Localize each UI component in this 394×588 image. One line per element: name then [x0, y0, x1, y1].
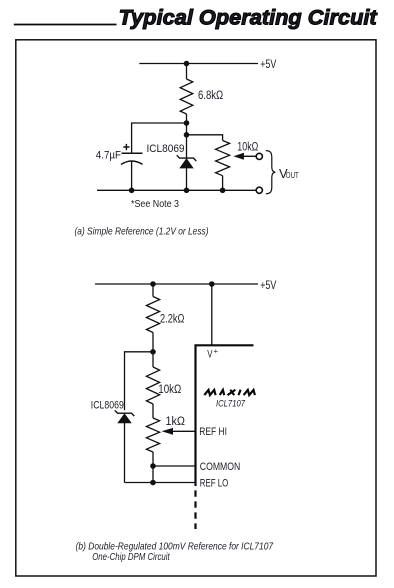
capacitor C1 plus sign	[123, 144, 129, 150]
svg-text:+5V: +5V	[260, 278, 276, 292]
node junction REF LO	[150, 480, 156, 486]
node on rail at V+ branch	[209, 281, 215, 287]
wire zener to REF LO rail	[124, 423, 126, 483]
svg-text:10kΩ: 10kΩ	[158, 384, 181, 396]
svg-text:10kΩ: 10kΩ	[237, 142, 258, 154]
node capacitor/bottom rail	[129, 188, 135, 194]
node pot/bottom rail	[220, 188, 226, 194]
svg-text:REF HI: REF HI	[199, 426, 227, 438]
node junction on +5V rail (a)	[184, 61, 190, 67]
svg-text:V: V	[207, 349, 212, 361]
VOUT terminal bottom	[256, 187, 262, 193]
svg-text:Typical Operating Circuit: Typical Operating Circuit	[119, 6, 378, 30]
node on rail at 2.2k	[150, 281, 156, 287]
node junction to pot branch	[184, 132, 190, 138]
wire to zener (b)	[125, 352, 154, 411]
resistor 10kΩ (b) zigzag	[146, 367, 159, 404]
wire pot to COMMON/REF LO	[152, 452, 154, 483]
wire +5V rail (a)	[139, 63, 258, 65]
svg-text:ICL7107: ICL7107	[216, 399, 246, 410]
node junction to capacitor branch	[184, 120, 190, 126]
VOUT label	[279, 166, 299, 181]
potentiometer 1kΩ zigzag	[146, 418, 159, 452]
potentiometer 10kΩ zigzag	[216, 141, 230, 191]
svg-text:One-Chip DPM Circuit: One-Chip DPM Circuit	[92, 552, 170, 563]
svg-text:6.8kΩ: 6.8kΩ	[198, 90, 224, 102]
wire to capacitor	[132, 123, 187, 153]
MAXIM logo	[204, 390, 255, 395]
wire COMMON	[153, 465, 195, 467]
svg-text:ICL8069: ICL8069	[91, 399, 124, 411]
node junction COMMON	[150, 463, 156, 469]
svg-text:4.7µF: 4.7µF	[96, 150, 121, 162]
zener diode ICL8069 (b)	[115, 410, 135, 423]
output brace	[266, 151, 276, 194]
potentiometer wiper arrow	[233, 153, 256, 160]
svg-text:(a) Simple Reference (1.2V or: (a) Simple Reference (1.2V or Less)	[75, 227, 209, 238]
wire V+ supply	[211, 284, 213, 345]
node junction to ICL8069 branch	[150, 349, 156, 355]
node zener/bottom rail	[184, 188, 190, 194]
wiper arrow 1kΩ to REF HI	[162, 428, 195, 435]
VOUT terminal top	[256, 153, 262, 159]
wire 10k to 1k pot	[152, 404, 154, 418]
resistor R1 6.8k zigzag	[180, 79, 193, 114]
wire 2.2k to 10k	[152, 333, 154, 368]
wire zener to bottom rail	[186, 168, 188, 190]
svg-text:2.2kΩ: 2.2kΩ	[160, 314, 185, 326]
bottom rail (a)	[97, 189, 256, 191]
wire from rail to resistor	[186, 64, 188, 80]
svg-text:(b) Double-Regulated 100mV Ref: (b) Double-Regulated 100mV Reference for…	[76, 541, 275, 552]
svg-text:REF LO: REF LO	[200, 477, 229, 489]
resistor 2.2kΩ zigzag	[146, 297, 159, 333]
wire rail to 2.2k	[152, 284, 154, 297]
title rule	[14, 24, 117, 26]
capacitor C1 4.7uF	[121, 153, 143, 190]
wire resistor to junctions	[186, 114, 188, 135]
svg-text:1kΩ: 1kΩ	[166, 416, 186, 428]
IC box dashed edge	[194, 490, 196, 529]
wire +5V rail (b)	[95, 283, 258, 285]
svg-text:ICL8069: ICL8069	[147, 143, 185, 155]
wire to 10k pot	[187, 135, 223, 141]
svg-text:+5V: +5V	[260, 57, 276, 71]
zener diode ICL8069 (a)	[177, 155, 197, 168]
svg-text:COMMON: COMMON	[200, 461, 241, 473]
svg-text:OUT: OUT	[286, 171, 299, 180]
svg-text:+: +	[214, 347, 219, 356]
V+ pin label	[207, 347, 218, 361]
IC U1 ICL7107 box edges	[196, 345, 254, 486]
wire junction to zener	[186, 135, 188, 158]
wire REF LO	[125, 482, 195, 484]
svg-text:*See Note 3: *See Note 3	[131, 199, 179, 210]
